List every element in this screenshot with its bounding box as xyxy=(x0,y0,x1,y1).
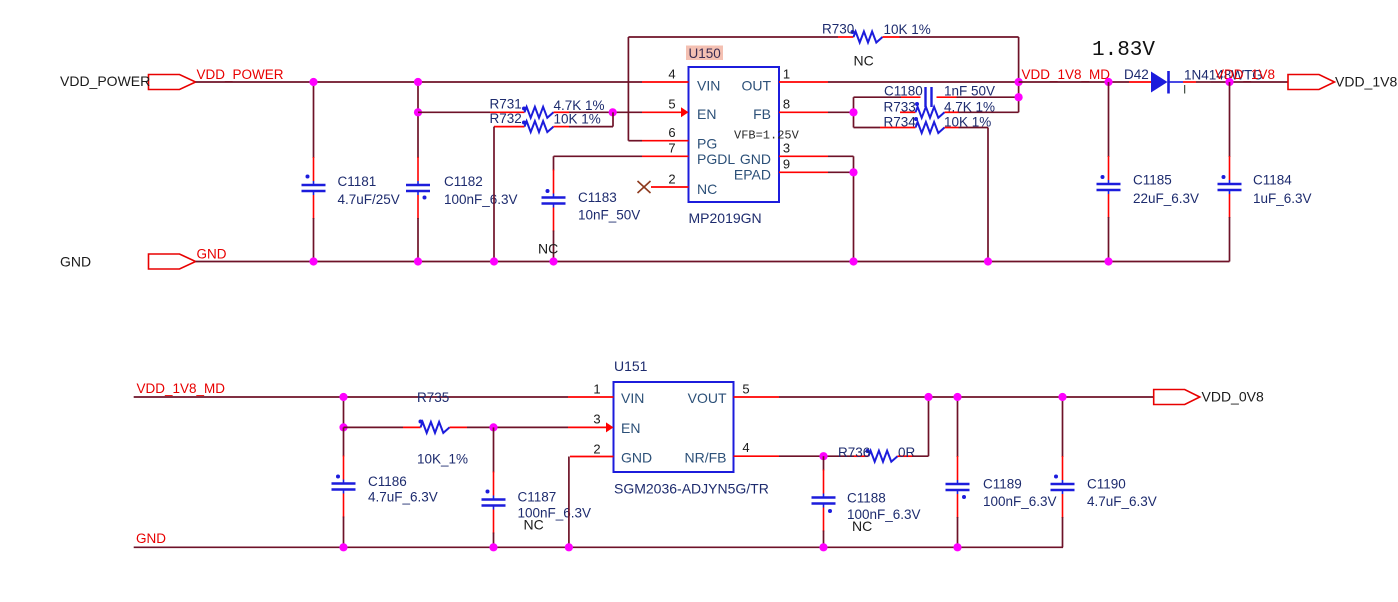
port VDD_POWER xyxy=(60,73,196,90)
junction rail/C1186 xyxy=(339,393,347,401)
wire VDD_POWER rail xyxy=(196,81,642,83)
svg-text:C1185: C1185 xyxy=(1133,173,1172,188)
svg-text:1: 1 xyxy=(593,382,600,397)
svg-text:1.83V: 1.83V xyxy=(1092,39,1155,62)
capacitor C1186 xyxy=(332,427,438,547)
svg-text:10K 1%: 10K 1% xyxy=(554,112,601,127)
svg-text:2: 2 xyxy=(593,442,600,457)
svg-text:1uF_6.3V: 1uF_6.3V xyxy=(1253,191,1312,206)
label NC C1183 xyxy=(538,241,558,257)
svg-text:GND: GND xyxy=(621,450,652,466)
wire R731 to EN junction xyxy=(569,111,642,113)
svg-text:R730: R730 xyxy=(822,22,854,37)
wire EN row bottom left xyxy=(344,426,404,428)
U150 pin 3 GND xyxy=(740,141,828,168)
IC U151 body xyxy=(614,382,734,472)
label NC R730 xyxy=(854,53,874,69)
junction GND/R732 xyxy=(490,257,498,265)
svg-text:VDD_0V8: VDD_0V8 xyxy=(1202,389,1264,405)
capacitor C1183 xyxy=(542,156,641,261)
svg-text:C1180: C1180 xyxy=(884,84,923,99)
svg-text:9: 9 xyxy=(783,157,790,172)
svg-text:4.7uF/25V: 4.7uF/25V xyxy=(338,192,400,207)
wire GND rail bottom xyxy=(134,546,1063,548)
U150 pin 8 FB xyxy=(753,97,828,123)
net label VDD_POWER xyxy=(197,67,284,82)
svg-text:4: 4 xyxy=(742,440,749,455)
wire R735 to EN pin xyxy=(467,426,568,428)
wire GND rail top xyxy=(196,261,1230,263)
resistor R734 xyxy=(854,115,992,134)
svg-text:100nF_6.3V: 100nF_6.3V xyxy=(444,192,518,207)
svg-text:C1188: C1188 xyxy=(847,491,886,506)
svg-text:GND: GND xyxy=(60,254,91,270)
svg-text:PG: PG xyxy=(697,136,717,152)
svg-text:EN: EN xyxy=(697,106,716,122)
capacitor C1189 xyxy=(946,397,1057,547)
wire OUT to VDD_1V8_MD xyxy=(828,81,1019,83)
svg-text:C1190: C1190 xyxy=(1087,477,1126,492)
label NC C1187 xyxy=(524,517,544,533)
junction VOUT/R736 xyxy=(924,393,932,401)
svg-text:10K 1%: 10K 1% xyxy=(884,22,931,37)
svg-text:22uF_6.3V: 22uF_6.3V xyxy=(1133,191,1199,206)
junction VOUT/C1189 xyxy=(953,393,961,401)
svg-text:R734: R734 xyxy=(884,115,917,130)
wire R732 left to GND xyxy=(493,127,495,262)
junction EN row bottom xyxy=(339,423,347,431)
svg-text:5: 5 xyxy=(742,382,749,397)
junction divider top xyxy=(1015,93,1023,101)
U150 pin 6 PG xyxy=(642,125,717,152)
wire EN row left xyxy=(418,111,490,113)
svg-text:VDD_POWER: VDD_POWER xyxy=(197,67,284,82)
junction R731/R732 xyxy=(609,108,617,116)
svg-text:10nF_50V: 10nF_50V xyxy=(578,208,640,223)
wire FB to divider xyxy=(828,97,854,127)
junction VDD_POWER/C1181 xyxy=(309,78,317,86)
junction GND/C1181 xyxy=(309,257,317,265)
svg-text:EPAD: EPAD xyxy=(734,166,771,182)
net label VDD_1V8_MD top xyxy=(1022,67,1111,82)
capacitor C1187 xyxy=(482,427,592,547)
svg-text:0R: 0R xyxy=(898,445,916,460)
capacitor C1181 xyxy=(302,82,400,262)
wire VDD_1V8_MD to diode xyxy=(1019,81,1129,83)
svg-text:R736: R736 xyxy=(838,445,870,460)
wire R732 riser to EN xyxy=(569,112,613,126)
svg-text:5: 5 xyxy=(668,97,675,112)
svg-text:VIN: VIN xyxy=(697,78,720,94)
port GND xyxy=(60,254,196,270)
diode D42 xyxy=(1124,67,1263,97)
U150 pin 1 OUT xyxy=(741,67,828,94)
svg-text:1: 1 xyxy=(783,67,790,82)
resistor R730 xyxy=(822,22,931,43)
junction GND/C1189 xyxy=(953,543,961,551)
net label VDD_1V8_MD bottom xyxy=(137,381,226,396)
svg-text:EN: EN xyxy=(621,420,640,436)
U151 pin 4 NR/FB xyxy=(685,440,780,466)
svg-text:GND: GND xyxy=(197,247,227,262)
capacitor C1182 xyxy=(406,82,518,262)
svg-text:6: 6 xyxy=(668,125,675,140)
U151 pin 2 GND xyxy=(570,442,652,466)
U150 pin 9 EPAD xyxy=(734,157,828,183)
svg-text:VDD_1V8: VDD_1V8 xyxy=(1215,67,1275,82)
svg-text:GND: GND xyxy=(740,151,771,167)
svg-text:VOUT: VOUT xyxy=(688,390,727,406)
junction VOUT/C1190 xyxy=(1058,393,1066,401)
svg-text:3: 3 xyxy=(593,412,600,427)
net label GND xyxy=(197,247,227,262)
capacitor C1185 xyxy=(1097,82,1200,262)
wire NR/FB row xyxy=(779,455,854,457)
svg-text:4: 4 xyxy=(668,67,675,82)
part number SGM2036 xyxy=(614,481,769,497)
svg-text:R733: R733 xyxy=(884,100,916,115)
junction C1185 top xyxy=(1104,78,1112,86)
svg-text:NC: NC xyxy=(852,518,872,534)
svg-text:3: 3 xyxy=(783,141,790,156)
svg-text:PGDL: PGDL xyxy=(697,151,735,167)
junction GND/R734 xyxy=(984,257,992,265)
svg-text:8: 8 xyxy=(783,97,790,112)
svg-text:4.7uF_6.3V: 4.7uF_6.3V xyxy=(368,490,438,505)
svg-text:NC: NC xyxy=(538,241,558,257)
U150 pin 4 VIN xyxy=(642,67,720,94)
U151 pin 3 EN xyxy=(568,412,640,437)
junction EPAD xyxy=(849,168,857,176)
svg-text:U151: U151 xyxy=(614,358,648,374)
capacitor C1190 xyxy=(1051,397,1157,547)
svg-text:7: 7 xyxy=(668,141,675,156)
capacitor C1184 xyxy=(1218,82,1312,262)
port VDD_1V8 xyxy=(1288,74,1397,90)
junction VDD_1V8_MD xyxy=(1015,78,1023,86)
svg-text:R731: R731 xyxy=(490,97,522,112)
U150 pin 2 NC with no-connect X xyxy=(638,172,718,198)
svg-text:SGM2036-ADJYN5G/TR: SGM2036-ADJYN5G/TR xyxy=(614,481,769,497)
resistor R735 xyxy=(403,390,468,467)
wire R734 to GND xyxy=(987,128,989,262)
svg-text:1nF 50V: 1nF 50V xyxy=(944,84,995,99)
svg-text:NC: NC xyxy=(524,517,544,533)
resistor R731 xyxy=(490,97,605,118)
svg-text:C1182: C1182 xyxy=(444,174,483,189)
svg-text:VDD_1V8_MD: VDD_1V8_MD xyxy=(137,381,226,396)
svg-text:VDD_1V8: VDD_1V8 xyxy=(1335,74,1397,90)
svg-text:4.7K 1%: 4.7K 1% xyxy=(944,100,995,115)
junction C1187 top xyxy=(489,423,497,431)
svg-text:2: 2 xyxy=(668,172,675,187)
capacitor C1188 xyxy=(812,456,921,547)
refdes U150 xyxy=(686,46,723,62)
wire C1186 branch xyxy=(343,397,345,427)
svg-text:C1187: C1187 xyxy=(518,490,557,505)
svg-text:VIN: VIN xyxy=(621,390,644,406)
U150 pin 7 PGDL xyxy=(642,141,735,168)
svg-text:100nF_6.3V: 100nF_6.3V xyxy=(983,494,1057,509)
U150 pin 5 EN xyxy=(642,97,716,123)
svg-text:C1184: C1184 xyxy=(1253,173,1292,188)
svg-text:4.7uF_6.3V: 4.7uF_6.3V xyxy=(1087,494,1157,509)
svg-text:I: I xyxy=(1183,83,1186,97)
svg-text:VDD_1V8_MD: VDD_1V8_MD xyxy=(1022,67,1111,82)
junction GND/U150 xyxy=(849,257,857,265)
resistor R733 xyxy=(884,100,1019,118)
svg-text:R732: R732 xyxy=(490,111,522,126)
U151 pin 5 VOUT xyxy=(688,382,779,407)
svg-text:U150: U150 xyxy=(689,46,721,61)
svg-text:MP2019GN: MP2019GN xyxy=(689,210,762,226)
junction GND/C1182 xyxy=(414,257,422,265)
wire PG pullup loop xyxy=(628,37,1018,141)
svg-text:10K 1%: 10K 1% xyxy=(944,115,991,130)
junction GND/C1188 xyxy=(819,543,827,551)
refdes U151 xyxy=(614,358,648,374)
junction FB xyxy=(849,108,857,116)
svg-text:C1181: C1181 xyxy=(338,174,377,189)
svg-text:NC: NC xyxy=(854,53,874,69)
junction GND/C1185 xyxy=(1104,257,1112,265)
wire VDD_1V8_MD rail bottom xyxy=(134,396,568,398)
port VDD_0V8 xyxy=(1154,389,1264,405)
resistor R736 xyxy=(838,445,916,462)
wire PGDL to C1183 xyxy=(554,155,643,157)
IC U150 body xyxy=(689,67,780,202)
junction GND/C1186 xyxy=(339,543,347,551)
junction GND/C1183 xyxy=(549,257,557,265)
wire U151 GND down xyxy=(568,457,570,548)
svg-text:VDD_POWER: VDD_POWER xyxy=(60,73,150,89)
junction EN branch xyxy=(414,108,422,116)
svg-text:FB: FB xyxy=(753,106,771,122)
resistor R732 xyxy=(490,111,601,132)
U150 VFB note xyxy=(734,129,800,143)
svg-text:C1183: C1183 xyxy=(578,190,617,205)
svg-text:10K_1%: 10K_1% xyxy=(417,452,468,467)
wire GND EPAD down xyxy=(828,156,854,261)
wire diode to port xyxy=(1211,81,1288,83)
svg-text:C1189: C1189 xyxy=(983,477,1022,492)
wire VOUT rail xyxy=(779,396,1154,398)
svg-text:OUT: OUT xyxy=(741,78,771,94)
capacitor C1180 xyxy=(854,84,1019,108)
svg-text:D42: D42 xyxy=(1124,67,1149,82)
voltage note 1.83V xyxy=(1092,39,1155,62)
svg-text:R735: R735 xyxy=(417,390,449,405)
junction GND/C1187 xyxy=(489,543,497,551)
svg-text:NC: NC xyxy=(697,181,717,197)
net label VDD_1V8 red xyxy=(1215,67,1275,82)
label NC C1188 xyxy=(852,518,872,534)
wire R736 riser xyxy=(912,397,929,456)
junction VDD_POWER/C1182 xyxy=(414,78,422,86)
junction GND/U151 xyxy=(565,543,573,551)
svg-text:NR/FB: NR/FB xyxy=(685,450,727,466)
net label GND bottom xyxy=(136,531,166,546)
junction C1188 top xyxy=(819,452,827,460)
U151 pin 1 VIN xyxy=(568,382,644,407)
svg-text:GND: GND xyxy=(136,531,166,546)
junction C1184 top xyxy=(1225,78,1233,86)
part number MP2019GN xyxy=(689,210,762,226)
svg-text:C1186: C1186 xyxy=(368,474,407,489)
